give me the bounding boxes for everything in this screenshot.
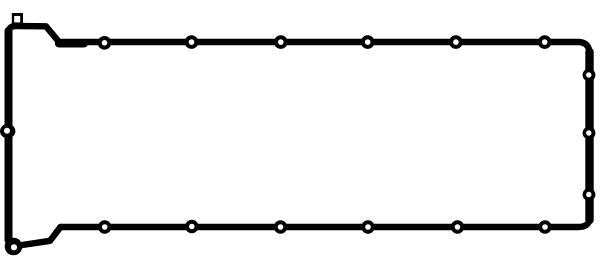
top edge [59, 42, 590, 54]
right edge [585, 52, 593, 220]
right edge bolt holes [583, 69, 596, 201]
left edge hole [0, 124, 15, 138]
bottom-right corner + bottom edge [61, 218, 590, 227]
bottom edge bolt holes [98, 220, 552, 234]
bottom-left corner lug hole [5, 238, 23, 256]
top-left corner + upper segment + step diagonal [9, 26, 60, 43]
ear tab top-left [12, 13, 23, 26]
top edge bolt holes [98, 35, 552, 49]
left edge [5, 31, 13, 240]
bottom-left step diagonal + lower line [19, 227, 61, 246]
thick shelf after step [59, 39, 84, 47]
